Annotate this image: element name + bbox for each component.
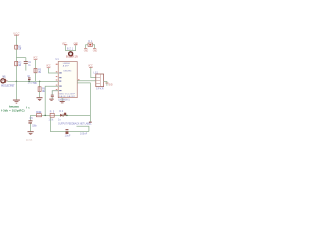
- svg-text:47k: 47k: [38, 71, 42, 74]
- svg-text:GAIN GAIN2: GAIN GAIN2: [59, 95, 76, 98]
- LED D1: [88, 43, 93, 46]
- pin number IC right: [78, 78, 80, 81]
- svg-text:fc: fc: [26, 106, 30, 109]
- wires LED: [86, 45, 88, 49]
- junction A-drop: [44, 115, 46, 117]
- U1 pin numbers left: [56, 64, 58, 65]
- wire bus-gnd left: [15, 81, 17, 99]
- wire IC-feedback drop: [77, 83, 90, 122]
- svg-text:BUZZER 12V: BUZZER 12V: [66, 57, 79, 59]
- svg-text:low pass: low pass: [9, 105, 20, 109]
- svg-text:(c)v1: (c)v1: [26, 139, 33, 141]
- ground under R6: [37, 96, 43, 99]
- wire speaker-gnd: [104, 82, 107, 86]
- capacitor C6 on B: [66, 128, 69, 131]
- ground terminal LED left: [84, 47, 87, 50]
- svg-text:C5: C5: [30, 118, 34, 120]
- resistor R6: [38, 87, 41, 92]
- svg-text:VCC: VCC: [33, 56, 38, 60]
- ground terminal LED right: [93, 47, 96, 50]
- op-amp U1 box: [58, 62, 77, 98]
- svg-text:R6: R6: [34, 83, 37, 85]
- U1 pin names inside: [59, 72, 62, 73]
- svg-text:AMP: AMP: [63, 65, 70, 68]
- svg-text:10k: 10k: [18, 48, 22, 51]
- wire R2-bus: [15, 66, 17, 82]
- feedback bar end: [89, 121, 92, 124]
- svg-text:BZ1: BZ1: [67, 49, 74, 51]
- ground under C3: [51, 97, 53, 99]
- wire bus-R6: [39, 81, 41, 86]
- wire IC pin4 bypass: [52, 91, 58, 95]
- ground under U1: [61, 98, 63, 101]
- svg-text:D2: D2: [59, 111, 63, 113]
- wire VCC-IC pin1: [49, 68, 59, 73]
- speaker LS1: [96, 74, 104, 87]
- ground under C5: [28, 130, 34, 133]
- capacitor C5: [29, 115, 31, 120]
- wire C1 top: [25, 58, 27, 62]
- svg-text:10uF: 10uF: [65, 136, 71, 138]
- buzzer BZ1: [69, 52, 73, 56]
- svg-text:VCC: VCC: [88, 64, 93, 68]
- svg-text:GND: GND: [84, 50, 89, 53]
- svg-text:SPKR: SPKR: [96, 89, 104, 91]
- wire R6-gnd: [39, 92, 41, 98]
- resistor R1: [15, 45, 18, 49]
- svg-text:DISCHG: DISCHG: [64, 71, 72, 73]
- wires buzzer: [66, 45, 76, 50]
- svg-text:1n: 1n: [28, 64, 31, 67]
- svg-text:100nF: 100nF: [80, 133, 88, 135]
- wire R3-bus: [35, 73, 37, 82]
- diode D2 extra mark: [64, 113, 66, 116]
- svg-text:GND: GND: [93, 50, 98, 53]
- capacitor C3 bypass: [51, 94, 54, 97]
- ground terminal right: [105, 82, 108, 85]
- wire VCC-R3: [35, 60, 37, 69]
- wire node-C1: [16, 57, 25, 59]
- wire drop to B and wire B: [50, 117, 89, 131]
- svg-text:1n: 1n: [58, 119, 62, 121]
- ground left: [13, 99, 20, 102]
- junction A mid: [66, 115, 68, 117]
- wire C: [77, 126, 89, 131]
- svg-text:MIC ELECTRET: MIC ELECTRET: [1, 86, 15, 88]
- capacitor C1: [24, 60, 28, 63]
- junction bus-R6: [39, 81, 41, 83]
- wire VCC-R1: [15, 36, 17, 46]
- svg-text:U1: U1: [56, 58, 60, 61]
- wire R1-node: [15, 49, 17, 61]
- svg-text:VCC: VCC: [46, 64, 51, 68]
- svg-text:OUTPUT FEEDBACK NET LABEL: OUTPUT FEEDBACK NET LABEL: [58, 123, 92, 126]
- wire C1 bottom stub: [25, 64, 27, 71]
- svg-text:VCC: VCC: [13, 31, 19, 35]
- junction bus-R2: [16, 81, 18, 83]
- svg-text:10k: 10k: [49, 119, 55, 121]
- svg-text:100n: 100n: [32, 126, 37, 128]
- junction bus-C2: [28, 81, 30, 83]
- svg-text:GND: GND: [108, 84, 113, 87]
- wire main bus: [8, 80, 59, 82]
- svg-text:f-3db = 1/(2piRC): f-3db = 1/(2piRC): [1, 109, 25, 113]
- wire IC out-speaker: [77, 80, 96, 82]
- wire VCC-speaker pin1: [91, 68, 96, 78]
- resistor R2: [15, 61, 18, 65]
- resistor R3: [34, 68, 37, 72]
- wire IC pin3 drop: [45, 86, 58, 115]
- wire A low-pass rail: [31, 114, 91, 116]
